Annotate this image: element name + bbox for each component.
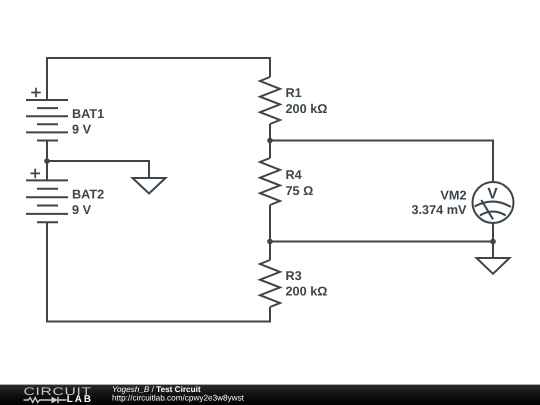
wire mid node to BAT2 top (46, 161, 48, 180)
svg-text:R1: R1 (286, 86, 302, 100)
wire R4 bottom to node B (269, 205, 271, 242)
wire node A to R4 top (269, 141, 271, 159)
battery midpoint junction dot (44, 158, 50, 164)
svg-text:BAT1: BAT1 (72, 107, 104, 121)
wire R1 bottom to node A (269, 124, 271, 141)
node B junction dot (267, 239, 273, 245)
wire mid node to ground stub (47, 161, 149, 178)
node A junction dot (267, 138, 273, 144)
svg-text:BAT2: BAT2 (72, 188, 104, 202)
CircuitLab logo (24, 386, 93, 405)
svg-text:V: V (487, 186, 498, 203)
svg-text:9 V: 9 V (72, 203, 92, 217)
wire voltmeter bottom to node C (492, 223, 494, 242)
node C junction dot (490, 239, 496, 245)
wire node C to ground stub (492, 242, 494, 259)
svg-text:9 V: 9 V (72, 123, 92, 137)
svg-text:LAB: LAB (67, 394, 93, 405)
svg-text:200 kΩ: 200 kΩ (286, 285, 328, 299)
resistor R4 (260, 158, 280, 205)
footer bar (0, 385, 540, 405)
battery BAT2 (26, 169, 68, 223)
wire node B to voltmeter bottom node (270, 241, 493, 243)
svg-text:75 Ω: 75 Ω (286, 184, 314, 198)
ground (battery midpoint) (133, 178, 166, 194)
resistor R3 (260, 260, 280, 307)
ground (voltmeter) (477, 258, 510, 274)
svg-text:VM2: VM2 (440, 189, 466, 203)
svg-text:http://circuitlab.com/cpwy2e3w: http://circuitlab.com/cpwy2e3w8ywst (112, 393, 245, 402)
svg-text:200 kΩ: 200 kΩ (286, 102, 328, 116)
wire bottom rail R3 to BAT2 minus terminal (47, 222, 270, 321)
voltmeter VM2 (473, 182, 514, 223)
wire top rail from BAT1 plus terminal to R1 top (47, 58, 270, 100)
svg-text:R4: R4 (286, 168, 302, 182)
svg-text:3.374 mV: 3.374 mV (411, 203, 467, 217)
resistor R1 (260, 77, 280, 124)
svg-text:R3: R3 (286, 269, 302, 283)
wire BAT1 bottom to mid node (46, 141, 48, 162)
battery BAT1 (26, 88, 68, 141)
wire node A to voltmeter top (270, 141, 493, 183)
wire node B to R3 top (269, 242, 271, 261)
